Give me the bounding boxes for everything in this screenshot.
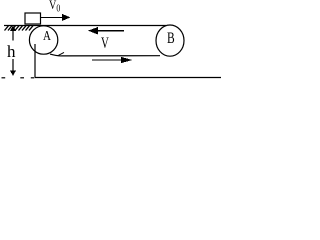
pulley A — [29, 26, 57, 54]
block on table — [25, 13, 41, 24]
belt line end curl — [59, 52, 65, 55]
arrow belt bottom (points right) — [92, 59, 122, 60]
label B — [167, 30, 175, 48]
label V — [101, 35, 109, 53]
wire: ground line solid — [35, 77, 221, 79]
h dimension line lower — [12, 59, 14, 73]
wire: table/belt top line — [4, 25, 166, 27]
label V0 — [49, 0, 60, 15]
wire: ground line dashed — [2, 77, 6, 79]
label A — [43, 29, 51, 45]
label h — [7, 42, 16, 62]
arrow belt top (points left) — [96, 30, 124, 31]
background — [0, 0, 225, 83]
h dimension line upper — [12, 27, 14, 41]
wire: belt bottom line — [50, 54, 160, 56]
h dimension arrowhead down — [10, 71, 16, 76]
pulley B — [156, 25, 184, 56]
h dimension arrowhead up — [10, 26, 16, 31]
ground hatch under table — [5, 26, 34, 31]
arrow V0 (block velocity) — [41, 17, 63, 18]
support leg — [34, 44, 36, 78]
